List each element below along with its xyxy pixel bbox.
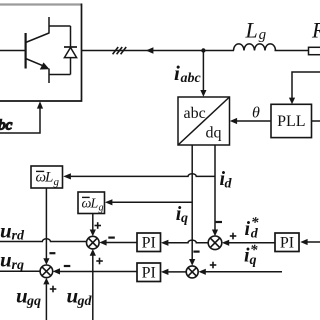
three-phase slashes	[113, 47, 127, 54]
svg-text:PI: PI	[142, 264, 156, 281]
omega-Lg block 2	[78, 192, 105, 214]
svg-text:u: u	[16, 284, 28, 308]
svg-text:*: *	[250, 242, 258, 258]
svg-text:L: L	[245, 18, 258, 43]
svg-text:PLL: PLL	[277, 113, 305, 130]
label i_d*	[245, 215, 260, 242]
node junction dot	[201, 48, 205, 52]
label i_abc	[174, 61, 202, 86]
svg-text:L: L	[90, 196, 99, 211]
label u_rd	[0, 219, 25, 244]
grid voltage sense wire to PLL	[289, 72, 320, 104]
wire i_abc	[200, 51, 206, 97]
wire omega-Lg2 down to sum S1	[90, 214, 96, 237]
svg-text:PI: PI	[280, 234, 294, 251]
wire S4 to PI2	[161, 269, 186, 275]
svg-text:bc: bc	[0, 118, 13, 134]
wire omega-Lg1 down to sum S2	[43, 188, 49, 265]
ac wire converter to grid	[82, 50, 309, 52]
diode D1	[64, 26, 77, 75]
wire i_d to omega-Lg block 1 (hop over i_q)	[63, 173, 215, 179]
PI block 1	[137, 233, 161, 252]
svg-text:u: u	[0, 248, 12, 272]
wire theta PLL to abc-dq	[230, 118, 271, 124]
PLL box	[271, 104, 312, 137]
current direction arrow on ac wire	[146, 47, 154, 54]
svg-text:g: g	[259, 27, 267, 43]
svg-text:PI: PI	[142, 234, 156, 251]
wire i_d	[212, 145, 218, 236]
sum junction S4 (i_q compare)	[186, 266, 198, 278]
label u_rq	[0, 248, 24, 274]
svg-text:i: i	[174, 61, 180, 85]
svg-text:abc: abc	[181, 71, 202, 86]
PLL right output wire	[312, 120, 320, 122]
wire u_gq up into S2 bottom	[43, 278, 49, 320]
abc/dq transform block	[178, 97, 230, 145]
plus sign at S1 top	[95, 222, 102, 229]
plus sign at S3 right	[230, 233, 237, 240]
minus sign PI2 to S2	[64, 265, 71, 267]
svg-text:u: u	[67, 284, 79, 308]
wire i_q to omega-Lg block 2	[105, 199, 192, 205]
label u_gq	[16, 284, 41, 309]
PI block 2	[137, 263, 161, 282]
plus sign at S4 right	[210, 262, 217, 269]
svg-text:g: g	[54, 176, 60, 188]
minus sign at S2 top	[49, 252, 55, 254]
minus sign PI1 to S1	[108, 237, 115, 239]
plus sign at S2 bottom	[50, 286, 57, 293]
label i_q	[176, 203, 188, 226]
wire S3 to PI1 (hop over i_q)	[161, 240, 208, 246]
minus sign at S4 top	[193, 251, 199, 253]
resistor Rg box	[309, 47, 320, 54]
omega-Lg block 1	[31, 166, 63, 188]
wire i_d* into S3	[222, 240, 275, 246]
wire i_q	[189, 145, 195, 266]
wire into PI3 from right	[300, 239, 320, 245]
transistor Q1 (IGBT)	[0, 17, 50, 83]
wire PI1 to S1	[99, 239, 137, 245]
svg-text:gd: gd	[77, 294, 93, 309]
sum junction S3 (i_d compare)	[208, 236, 222, 250]
PI block 3	[275, 233, 299, 252]
minus sign at S3 top	[216, 221, 222, 223]
svg-text:d: d	[225, 177, 233, 192]
svg-text:θ: θ	[252, 104, 260, 121]
PWM feedback wire into converter	[0, 101, 43, 133]
svg-text:gq: gq	[26, 294, 41, 309]
svg-text:R: R	[311, 18, 320, 43]
wire collector to diode	[49, 25, 71, 27]
wire i_q* into S4	[199, 269, 283, 275]
svg-text:L: L	[44, 170, 53, 186]
svg-text:g: g	[99, 202, 104, 213]
svg-text:dq: dq	[206, 125, 222, 142]
wire emitter to diode	[49, 74, 71, 76]
label u_gd	[67, 284, 93, 309]
label i_d	[220, 168, 233, 192]
svg-text:i: i	[245, 218, 251, 240]
wire u_rq output	[0, 270, 40, 272]
svg-text:u: u	[0, 219, 12, 243]
plus sign at S1 bottom	[96, 258, 103, 265]
label i_q*	[244, 242, 258, 267]
svg-text:q: q	[181, 211, 188, 226]
svg-text:*: *	[251, 215, 259, 231]
wire u_rd output (hop over omega-Lg1 line)	[0, 239, 87, 242]
svg-text:rq: rq	[12, 258, 24, 273]
converter box	[0, 4, 82, 102]
svg-text:rd: rd	[12, 229, 25, 244]
inductor Lg	[234, 44, 276, 51]
label Lg	[245, 18, 267, 43]
sum junction S1 (d-axis)	[87, 236, 100, 249]
sum junction S2 (q-axis)	[40, 265, 53, 278]
svg-text:abc: abc	[184, 105, 206, 122]
wire u_gd up into S1 bottom	[90, 249, 96, 320]
wire PI2 to S2	[53, 268, 137, 274]
